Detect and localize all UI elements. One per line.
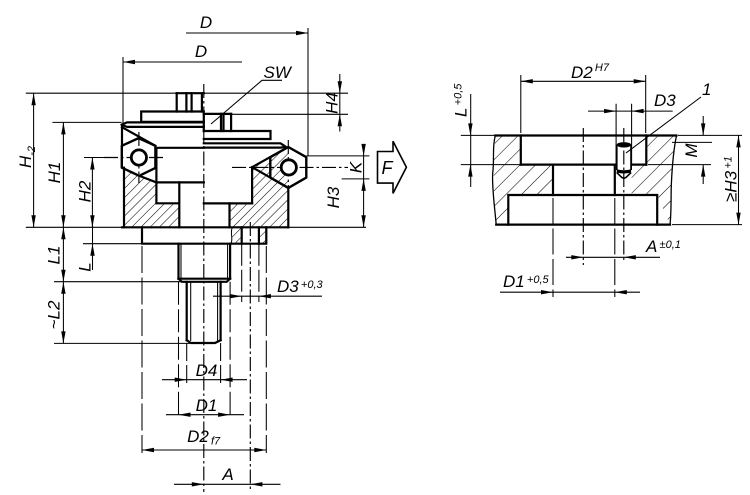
hatch top band left xyxy=(494,136,521,165)
ext verticals D4 xyxy=(187,343,221,384)
lower recess xyxy=(508,195,657,225)
ext line K bottom xyxy=(342,178,370,180)
dim M xyxy=(702,116,704,135)
ext pin top right xyxy=(672,141,712,143)
dim A +-0,1 xyxy=(566,256,660,258)
svg-text:L1: L1 xyxy=(45,246,64,265)
ext line lowered stud top (H4 bottom) xyxy=(204,113,348,115)
hatch body left block xyxy=(122,168,156,228)
ext plate top left xyxy=(461,134,497,136)
hex R horizontal centerline xyxy=(232,166,348,168)
ext verticals D1 xyxy=(179,282,231,419)
stud bottom chamfer xyxy=(187,340,221,343)
hole circle left arm xyxy=(131,150,146,165)
dim L +0,5 xyxy=(470,94,472,187)
slant body corner to hexL xyxy=(122,127,155,146)
dim D4 xyxy=(162,379,247,381)
grub screw lower dark band xyxy=(617,169,631,173)
dim K + H3 shared vertical xyxy=(363,144,365,227)
hole circle right arm xyxy=(281,160,296,175)
ext verticals D2 xyxy=(142,246,266,453)
svg-text:~L2: ~L2 xyxy=(45,300,64,329)
slant cavity corner to hexR bottom xyxy=(252,167,288,188)
svg-text:L: L xyxy=(76,262,95,271)
stud SW lowered: verticals xyxy=(204,114,231,131)
dim D3 +0,3 xyxy=(213,295,322,297)
dim H2 xyxy=(91,158,93,228)
hatch top band right xyxy=(646,136,676,165)
dim D1 xyxy=(166,414,244,416)
svg-text:D4: D4 xyxy=(196,361,218,380)
ext counterbore bottom left xyxy=(461,164,521,166)
pin centerline xyxy=(623,128,625,262)
ext line body bottom left xyxy=(26,226,122,228)
stud thread outer xyxy=(187,282,221,340)
svg-text:M: M xyxy=(682,143,701,158)
hatch bottom band right xyxy=(657,195,672,225)
body right edge lower xyxy=(287,188,289,227)
ext line flange bottom xyxy=(83,243,147,245)
svg-text:K: K xyxy=(347,161,366,173)
flange hole D3 walls xyxy=(242,227,259,243)
ext counterbore bottom right xyxy=(648,164,711,166)
slant cavity corner to hexR top xyxy=(252,147,288,167)
dim D1 +0,5 xyxy=(553,198,615,297)
svg-text:A: A xyxy=(221,465,233,484)
hatch bottom band left xyxy=(494,195,508,225)
svg-text:f7: f7 xyxy=(211,436,221,448)
stud SW lowered: top xyxy=(204,113,231,115)
ext verticals D3 flange hole xyxy=(242,244,259,302)
neck bottom + chamfer xyxy=(179,279,231,282)
breakout wavy line xyxy=(231,227,233,243)
ext line body bottom right (H3) xyxy=(288,226,366,228)
cap plate1 left xyxy=(141,112,204,122)
pin hole mouth walls xyxy=(616,136,632,165)
dim D3 top xyxy=(616,104,632,136)
svg-text:SW: SW xyxy=(264,63,293,82)
left break edge xyxy=(493,136,497,225)
dim A xyxy=(174,483,281,485)
svg-text:D: D xyxy=(200,13,212,32)
hex L vertical centerline xyxy=(138,132,140,183)
dim ~L2 xyxy=(62,282,64,344)
hatch body right block xyxy=(230,147,289,227)
slant hexL bottom to pocket xyxy=(139,176,156,183)
stud SW raised: verticals xyxy=(177,93,202,111)
svg-text:H1: H1 xyxy=(45,162,64,184)
body left edge upper xyxy=(121,125,123,147)
ext line K top xyxy=(306,155,369,157)
hatch middle band right xyxy=(632,165,672,195)
D3 flange hole centerline xyxy=(249,222,251,490)
svg-text:H4: H4 xyxy=(323,92,342,114)
dim D2 H7 xyxy=(521,75,646,133)
svg-text:1: 1 xyxy=(702,80,711,99)
dim >=H3 +1 xyxy=(738,135,740,224)
svg-text:F: F xyxy=(382,158,394,178)
dim D2 f7 xyxy=(142,449,266,451)
neck threaded section xyxy=(179,244,231,279)
F arrow xyxy=(378,141,407,193)
dim H-2 xyxy=(33,93,35,227)
grub screw top socket (dark ellipse) xyxy=(617,142,631,147)
cavity right wall xyxy=(251,167,253,203)
hatch flange breakout right of hole xyxy=(259,227,266,243)
svg-text:H2: H2 xyxy=(76,180,95,202)
right break edge xyxy=(670,136,677,225)
svg-text:H3: H3 xyxy=(324,186,343,208)
ext line stud tip xyxy=(54,342,190,344)
hatch middle band left xyxy=(494,165,553,195)
grub screw cone point xyxy=(617,173,631,179)
ext vertical D left xyxy=(122,57,124,124)
clamp washer left (wedge) xyxy=(122,122,204,127)
svg-text:D2: D2 xyxy=(187,427,209,446)
plate top xyxy=(495,134,676,136)
hex L horizontal centerline xyxy=(104,157,164,159)
stud thread minor xyxy=(191,282,218,341)
stud SW raised: top xyxy=(177,92,204,94)
step wall right xyxy=(228,203,230,227)
ext line raised washer (H1 top) xyxy=(52,121,121,123)
recess around screw xyxy=(156,148,203,183)
hex R vertical centerline xyxy=(287,140,289,194)
hexagon left arm xyxy=(122,138,156,176)
dim D top xyxy=(186,32,308,34)
ext line lowered washer (H2 top) xyxy=(84,157,106,159)
ext line neck bottom xyxy=(54,281,182,283)
clamp washer right (wedge) xyxy=(204,143,286,147)
ext line top (H-2 / H4 level) xyxy=(26,92,348,94)
hexagon right arm xyxy=(270,147,306,188)
counterbore bottom xyxy=(521,164,647,166)
svg-text:D3: D3 xyxy=(654,91,676,110)
flange outline xyxy=(142,227,266,243)
D1 hole walls xyxy=(553,165,615,195)
dim L1 xyxy=(62,227,64,281)
body left edge lower xyxy=(123,168,125,228)
ext plate bottom right xyxy=(672,224,742,226)
pocket below recess xyxy=(156,182,179,227)
plate centerline xyxy=(582,128,584,265)
main centerline xyxy=(203,84,205,492)
hatch flange breakout left of hole xyxy=(231,227,242,243)
svg-text:D1: D1 xyxy=(196,396,218,415)
body bottom xyxy=(122,226,288,228)
counterbore D2 walls xyxy=(521,136,647,165)
cavity ledge xyxy=(204,202,252,204)
neck thread minor lines xyxy=(181,244,228,279)
dim D mid xyxy=(123,61,242,63)
dim H1 xyxy=(62,122,64,227)
ext plate top right xyxy=(678,134,742,136)
hatch below pocket xyxy=(156,203,179,227)
dim L xyxy=(92,222,94,270)
ext vertical D right xyxy=(307,28,309,156)
cap plate1 right xyxy=(204,131,271,139)
plate bottom xyxy=(496,224,670,226)
svg-text:D: D xyxy=(195,42,207,61)
grub screw body xyxy=(617,145,631,170)
dim H4 xyxy=(339,74,341,132)
